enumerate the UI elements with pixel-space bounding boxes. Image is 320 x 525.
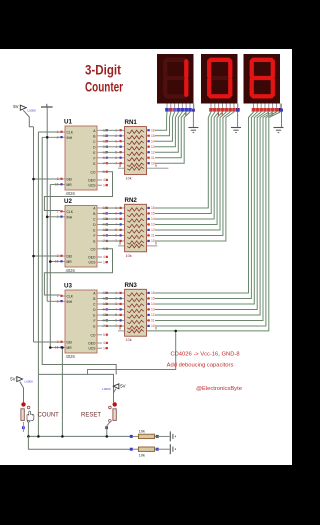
display D2 pins <box>210 104 212 113</box>
RN2 left pin 5 <box>119 229 125 231</box>
RN3 right pin 11 <box>147 320 151 322</box>
wire U2.E to RN2.5 <box>102 229 119 231</box>
7-segment display D3 body <box>244 54 281 104</box>
top letterbox bar <box>0 0 292 49</box>
wire INH bus to U1 INH <box>42 136 60 138</box>
wire U3.G to RN3.7 <box>102 325 119 327</box>
wire 5V rail to U2 DEI <box>34 255 61 257</box>
U2 pin A <box>97 207 102 209</box>
RN1 left pin 4 <box>119 146 125 148</box>
wire U2.F to RN2.6 <box>102 235 119 237</box>
wire U1.G to RN1.7 <box>102 162 119 164</box>
wire RN1.14 to display pin 3 <box>155 112 175 141</box>
svg-text:UCS: UCS <box>89 347 97 351</box>
RN1 right pin 14 <box>147 140 151 142</box>
svg-text:COUNT: COUNT <box>38 412 60 418</box>
svg-text:INH: INH <box>67 300 73 304</box>
display D2 segment F <box>207 61 211 76</box>
wire RN3.14 to display pin 3 <box>155 112 261 304</box>
display D3 segment C <box>271 80 275 95</box>
RN1 left pin 7 <box>119 162 125 164</box>
svg-text:13: 13 <box>151 145 155 149</box>
RN2 left pin 7 <box>119 240 125 242</box>
RN2 right pin 15 <box>147 213 151 215</box>
display D3 segment F <box>250 61 254 76</box>
svg-text:RN3: RN3 <box>125 282 138 289</box>
RN1 right pin 10 <box>147 162 151 164</box>
RN2 left pin 1 <box>119 207 125 209</box>
display D3 pins <box>253 104 255 113</box>
svg-text:INH: INH <box>67 215 73 219</box>
svg-text:11: 11 <box>151 156 155 160</box>
wire 5V to RESET button top <box>114 389 116 403</box>
7-segment display D1 body <box>157 54 194 104</box>
svg-text:DEO: DEO <box>88 256 96 260</box>
ground symbol below display D2 <box>231 127 241 129</box>
svg-text:4026: 4026 <box>66 191 76 196</box>
RN1 left pin 8 (common) <box>118 167 125 169</box>
display D3 segment A <box>253 58 271 62</box>
wire U3.A to RN3.1 <box>102 292 119 294</box>
display D1 pin state squares <box>165 108 169 112</box>
svg-text:13: 13 <box>151 308 155 312</box>
wire U2.C to RN2.3 <box>102 218 119 220</box>
wire RN3.16 to display pin 1 <box>155 112 254 293</box>
RN2 right pin 12 <box>147 229 151 231</box>
red pin tick below D1 strip <box>185 112 187 116</box>
svg-text:UCS: UCS <box>89 184 97 188</box>
display D3 segment E <box>250 80 254 95</box>
U1 pin DEI <box>60 178 65 180</box>
U3 pin INH <box>60 300 65 302</box>
svg-text:CD4026 -> Vcc-16, GND-8: CD4026 -> Vcc-16, GND-8 <box>170 352 239 358</box>
U2 pin CLK <box>60 211 65 213</box>
wire U3.C to RN3.3 <box>102 303 119 305</box>
ground symbol (sideways) for R2 <box>169 444 171 454</box>
ground symbol (sideways) for R1 <box>169 431 171 441</box>
RN2 right pin 14 <box>147 218 151 220</box>
RN3 left pin 8 (common) <box>118 330 125 332</box>
wire MR bus to U1 MR <box>50 184 60 186</box>
ground symbol below display D3 <box>274 127 284 129</box>
wire RN2.16 to display pin 1 <box>155 112 211 208</box>
power symbol 5V (bottom, RESET) <box>113 384 119 389</box>
RN1 left pin 5 <box>119 151 125 153</box>
RN3 right pin 14 <box>147 303 151 305</box>
svg-text:CLK: CLK <box>67 295 74 299</box>
display D1 segment F <box>163 61 167 76</box>
svg-text:F: F <box>93 234 95 238</box>
RN3 right pin 13 <box>147 309 151 311</box>
RN3 right pin 12 <box>147 314 151 316</box>
MR bus rail <box>49 185 51 348</box>
RN2 right pin 10 <box>147 240 151 242</box>
wire RN1.12 to display pin 5 <box>155 112 182 152</box>
U2 pin MR <box>60 261 65 263</box>
svg-text:16: 16 <box>151 291 155 295</box>
RESET button bottom wire <box>105 426 108 429</box>
wire RN2.12 to display pin 5 <box>155 112 226 230</box>
U3 pin MR <box>60 347 65 349</box>
RN3 left pin 7 <box>119 325 125 327</box>
svg-text:F: F <box>93 156 95 160</box>
U3 pin D <box>97 309 102 311</box>
svg-text:DEO: DEO <box>88 342 96 346</box>
wire down to second pulldown <box>28 436 131 449</box>
RN2 left pin 3 <box>119 218 125 220</box>
svg-text:MR: MR <box>67 260 73 264</box>
display D3 pin state squares <box>252 108 256 112</box>
resistor network RN2 body <box>125 204 147 252</box>
svg-text:15: 15 <box>151 212 155 216</box>
display D1 segment A <box>167 58 185 62</box>
svg-text:14: 14 <box>151 217 155 221</box>
wire MR bus to U3 MR <box>50 347 60 349</box>
svg-text:RESET: RESET <box>81 412 101 418</box>
wire 5V rail to U3 DEI <box>34 341 61 343</box>
wire INH bus to U2 INH <box>47 216 60 218</box>
U2 pin DEO <box>97 256 102 258</box>
U2 pin DEI <box>60 255 65 257</box>
svg-text:8: 8 <box>119 327 121 331</box>
COUNT button hand cursor <box>27 411 34 421</box>
wire 5V rail to U1 DEI <box>34 178 61 180</box>
ground symbol below display D1 <box>188 127 198 129</box>
display D3 segment D <box>253 94 271 98</box>
IC U2 (CD4026) body <box>65 206 97 268</box>
display D1 segment E <box>163 80 167 95</box>
U3 pin CLK <box>60 295 65 297</box>
wire below U3 horizontal to RESET button top <box>38 374 113 392</box>
display D2 pin state squares <box>209 108 213 112</box>
RN2 left pin 4 <box>119 224 125 226</box>
U3 pin DEO <box>97 342 102 344</box>
COUNT button bottom wire <box>22 426 25 429</box>
RN1 right pin 13 <box>147 146 151 148</box>
svg-text:DEI: DEI <box>67 255 73 259</box>
wire RN1.15 to display pin 2 <box>155 112 171 136</box>
U2 pin C <box>97 218 102 220</box>
RESET button 5V terminal dot <box>113 402 117 406</box>
wire RN3.10 to display pin 7 <box>155 112 276 326</box>
RN3 left pin 6 <box>119 320 125 322</box>
wire RN2.14 to display pin 3 <box>155 112 219 219</box>
RN2 left pin 8 (common) <box>118 245 125 247</box>
INH bus rail <box>46 107 48 301</box>
svg-text:UCS: UCS <box>89 261 97 265</box>
wire RN3.11 to display pin 6 <box>155 112 273 321</box>
RN1 left pin 3 <box>119 140 125 142</box>
wire RN1.11 to display pin 6 <box>155 112 186 158</box>
RN3 left pin 1 <box>119 292 125 294</box>
wire COUNT rail to U1 CLK <box>38 131 60 133</box>
wire RN2.13 to display pin 4 <box>155 112 222 225</box>
display D2 segment B <box>228 61 232 76</box>
svg-text:11: 11 <box>151 319 155 323</box>
RN2 left pin 2 <box>119 213 125 215</box>
svg-text:9: 9 <box>155 164 157 168</box>
U3 pin B <box>97 298 102 300</box>
RN3 left pin 4 <box>119 309 125 311</box>
wire INH bus to U3 INH <box>47 300 60 302</box>
svg-text:12: 12 <box>151 228 155 232</box>
push button COUNT <box>27 406 30 409</box>
display D1 pins <box>166 104 168 113</box>
svg-text:G: G <box>93 162 96 166</box>
wire RN1.10 to display pin 7 <box>155 112 190 163</box>
RN3 right pin 16 <box>147 292 151 294</box>
COUNT button 5V terminal dot <box>21 402 25 406</box>
display D3 common cathode pin to ground <box>281 104 283 110</box>
svg-text:3-Digit: 3-Digit <box>85 63 121 78</box>
svg-text:4026: 4026 <box>66 268 76 273</box>
svg-text:16: 16 <box>151 206 155 210</box>
wire RN3.15 to display pin 2 <box>155 112 257 299</box>
RN2 right pin 16 <box>147 207 151 209</box>
svg-text:9: 9 <box>155 242 157 246</box>
U2 pin F <box>97 235 102 237</box>
U1 pin INH <box>60 136 65 138</box>
U2 pin G <box>97 240 102 242</box>
svg-text:13: 13 <box>151 223 155 227</box>
RN1 right pin 12 <box>147 151 151 153</box>
RN1 left pin 6 <box>119 157 125 159</box>
U3 pin F <box>97 320 102 322</box>
wire U2.B to RN2.2 <box>102 213 119 215</box>
svg-text:10k: 10k <box>139 430 145 434</box>
svg-text:CO: CO <box>91 247 96 251</box>
7-segment display D2 body <box>201 54 238 104</box>
display D2 segment C <box>228 80 232 95</box>
wire U3.F to RN3.6 <box>102 320 119 322</box>
GND rail (ground symbol to bottom) <box>42 137 116 374</box>
U3 pin E <box>97 314 102 316</box>
RN3 pin 9 / common long wire <box>147 112 281 331</box>
ground symbol (top) <box>46 104 48 107</box>
U1 pin UCS <box>97 184 102 186</box>
resistor R2 10k pulldown <box>130 448 133 451</box>
IC U3 (CD4026) body <box>65 290 97 353</box>
svg-text:16: 16 <box>151 129 155 133</box>
white schematic background <box>0 49 292 465</box>
resistor network RN1 body <box>125 127 147 175</box>
U1 pin CO <box>97 171 102 173</box>
resistor network RN3 body <box>125 289 147 336</box>
svg-text:14: 14 <box>151 140 155 144</box>
svg-text:CO: CO <box>91 333 96 337</box>
RN3 right pin 15 <box>147 298 151 300</box>
display D1 segment G <box>167 76 185 80</box>
svg-text:L0000: L0000 <box>102 387 111 391</box>
wire U1.B to RN1.2 <box>102 135 119 137</box>
svg-text:RN1: RN1 <box>125 119 138 126</box>
U1 pin DEO <box>97 179 102 181</box>
svg-text:5V: 5V <box>10 376 15 381</box>
U1 pin MR <box>60 184 65 186</box>
svg-text:MR: MR <box>67 183 73 187</box>
RN2 left pin 6 <box>119 235 125 237</box>
U3 pin A <box>97 292 102 294</box>
RN1 resistor zigzags <box>127 130 144 133</box>
svg-text:DEI: DEI <box>67 341 73 345</box>
wire U2.G to RN2.7 <box>102 240 119 242</box>
wire cascade U2.CO to U3.CLK <box>44 249 112 295</box>
svg-text:14: 14 <box>151 302 155 306</box>
svg-text:F: F <box>93 319 95 323</box>
svg-text:INH: INH <box>67 136 73 140</box>
U2 pin B <box>97 213 102 215</box>
svg-text:RN2: RN2 <box>125 197 138 204</box>
display D1 common cathode pin to ground <box>192 104 194 110</box>
COUNT net horizontal wire <box>28 435 131 437</box>
RN2 resistor zigzags <box>127 208 144 211</box>
U2 pin E <box>97 229 102 231</box>
RN1 right pin 11 <box>147 157 151 159</box>
RN3 left pin 5 <box>119 314 125 316</box>
wire U1.D to RN1.4 <box>102 146 119 148</box>
svg-text:DEO: DEO <box>88 179 96 183</box>
display D1 segment B <box>184 61 188 76</box>
wire 5V to COUNT button top <box>20 382 24 403</box>
U2 pin CO <box>97 248 102 250</box>
svg-text:4: 4 <box>103 178 105 182</box>
wire U3.D to RN3.4 <box>102 309 119 311</box>
RN3 left pin 2 <box>119 298 125 300</box>
U3 pin DEI <box>60 341 65 343</box>
wire RN1.16 to display pin 1 <box>155 112 167 130</box>
wire RN3 common branch down to bottom rail <box>88 331 176 375</box>
svg-text:8: 8 <box>119 242 121 246</box>
svg-text:L0000: L0000 <box>28 109 37 113</box>
svg-text:G: G <box>93 325 96 329</box>
svg-text:CLK: CLK <box>67 210 74 214</box>
svg-text:G: G <box>93 240 96 244</box>
svg-text:4: 4 <box>103 255 105 259</box>
RN3 resistor zigzags <box>127 293 144 296</box>
COUNT rail (button to U1 CLK) <box>37 132 39 436</box>
RN3 left pin 3 <box>119 303 125 305</box>
wire U2.A to RN2.1 <box>102 207 119 209</box>
U1 pin D <box>97 146 102 148</box>
push button RESET <box>109 406 112 409</box>
U3 pin UCS <box>97 347 102 349</box>
U1 pin E <box>97 151 102 153</box>
wire U3.E to RN3.5 <box>102 314 119 316</box>
display D1 segment D <box>167 94 185 98</box>
svg-text:U3: U3 <box>64 283 72 290</box>
wire RN2.15 to display pin 2 <box>155 112 215 214</box>
RN3 right pin 10 <box>147 325 151 327</box>
svg-text:15: 15 <box>151 297 155 301</box>
U3 pin C <box>97 303 102 305</box>
U1 pin B <box>97 135 102 137</box>
svg-text:5: 5 <box>103 333 105 337</box>
wire 5V feed to +5V rail <box>23 110 33 127</box>
svg-text:5V: 5V <box>120 384 125 389</box>
U3 pin CO <box>97 334 102 336</box>
U1 pin A <box>97 129 102 131</box>
svg-text:11: 11 <box>151 234 155 238</box>
wire RN2.10 to display pin 7 <box>155 112 234 241</box>
svg-text:Add deboucing capacitors: Add deboucing capacitors <box>167 363 234 369</box>
svg-text:4026: 4026 <box>66 354 76 359</box>
display D2 segment D <box>211 94 229 98</box>
RN1 left pin 2 <box>119 135 125 137</box>
display D2 segment G <box>211 76 229 80</box>
svg-text:15: 15 <box>151 134 155 138</box>
wire U2.D to RN2.4 <box>102 224 119 226</box>
bottom letterbox bar <box>0 465 292 520</box>
RN1 right pin 16 <box>147 129 151 131</box>
U1 pin G <box>97 162 102 164</box>
svg-text:12: 12 <box>151 151 155 155</box>
display D2 segment A <box>211 58 229 62</box>
resistor R1 10k pulldown <box>130 435 133 438</box>
svg-text:9: 9 <box>155 327 157 331</box>
svg-text:10k: 10k <box>126 338 132 342</box>
wire U1.E to RN1.5 <box>102 151 119 153</box>
wire U1.C to RN1.3 <box>102 140 119 142</box>
IC U1 (CD4026) body <box>65 126 97 190</box>
RN1 left pin 1 <box>119 129 125 131</box>
svg-text:5V: 5V <box>13 104 18 109</box>
svg-text:12: 12 <box>151 313 155 317</box>
red pin ticks below D2 strip <box>217 112 219 116</box>
wire MR bus to U2 MR <box>50 261 60 263</box>
svg-text:CLK: CLK <box>67 131 74 135</box>
svg-text:10k: 10k <box>126 177 132 181</box>
svg-text:@ElectronicsByte: @ElectronicsByte <box>196 386 242 392</box>
svg-text:10k: 10k <box>139 453 145 457</box>
display D3 segment B <box>271 61 275 76</box>
U1 pin C <box>97 140 102 142</box>
svg-text:CO: CO <box>91 170 96 174</box>
svg-text:Counter: Counter <box>85 80 124 95</box>
svg-text:DEI: DEI <box>67 178 73 182</box>
wire U3.B to RN3.2 <box>102 298 119 300</box>
RN2 right pin 13 <box>147 224 151 226</box>
auxiliary rail below U3 <box>61 348 63 437</box>
display D1 segment C <box>184 80 188 95</box>
U2 pin UCS <box>97 261 102 263</box>
svg-text:MR: MR <box>67 346 73 350</box>
U1 pin F <box>97 157 102 159</box>
junction dots on bottom wire <box>27 435 30 438</box>
display D2 segment E <box>207 80 211 95</box>
svg-text:4: 4 <box>103 341 105 345</box>
wire U1.F to RN1.6 <box>102 157 119 159</box>
U1 pin CLK <box>60 131 65 133</box>
wire RN2.11 to display pin 6 <box>155 112 230 236</box>
svg-text:10k: 10k <box>126 254 132 258</box>
wire RN1.13 to display pin 4 <box>155 112 178 147</box>
display D3 segment G <box>253 76 271 80</box>
RN2 pin 9 stub (unused DP resistor) <box>147 245 158 247</box>
RN1 right pin 15 <box>147 135 151 137</box>
wire U1.A to RN1.1 <box>102 129 119 131</box>
svg-text:8: 8 <box>119 164 121 168</box>
RN2 right pin 11 <box>147 235 151 237</box>
display D2 common cathode pin to ground <box>237 104 239 110</box>
red pin ticks below D3 strip <box>267 112 269 116</box>
svg-text:U2: U2 <box>64 198 72 205</box>
RN1 pin 9 stub (unused DP resistor) <box>147 167 169 169</box>
U2 pin D <box>97 224 102 226</box>
wire cascade U1.CO to U2.CLK <box>44 172 112 211</box>
wire RN3.12 to display pin 5 <box>155 112 269 315</box>
wire RN3.13 to display pin 4 <box>155 112 265 310</box>
U2 pin INH <box>60 216 65 218</box>
